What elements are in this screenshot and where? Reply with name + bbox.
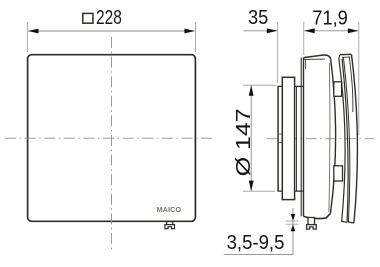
flange ring on pipe bbox=[282, 77, 294, 199]
ext line housing back bbox=[303, 22, 305, 55]
svg-text:71,9: 71,9 bbox=[312, 6, 348, 29]
ext line pipe end bbox=[277, 22, 279, 83]
arrow left 228 bbox=[28, 29, 39, 34]
bottom clip connector bbox=[334, 166, 343, 181]
arrow 71,9 right bbox=[348, 28, 359, 33]
3,5-9,5 leader vertical bbox=[292, 208, 294, 254]
back small latch detail bbox=[304, 59, 306, 69]
3,5-9,5 underline bbox=[224, 253, 294, 255]
cover shell (band2) bbox=[339, 54, 358, 223]
housing front silhouette bbox=[330, 59, 335, 213]
dimension line 228 bbox=[29, 30, 195, 32]
centerline horizontal (side view) bbox=[267, 138, 375, 140]
svg-text:MAICO: MAICO bbox=[157, 205, 182, 214]
dia 147 ext lines bbox=[243, 85, 276, 191]
arrow at pipe-end ext bbox=[267, 28, 278, 33]
gap arrow up bbox=[291, 225, 296, 232]
dim line 35 (arrow outside left) bbox=[244, 30, 277, 32]
svg-text:35: 35 bbox=[248, 6, 268, 29]
housing body outline bbox=[304, 55, 331, 59]
centerline horizontal (left view) bbox=[5, 137, 213, 139]
cover square (front view) bbox=[28, 55, 196, 222]
extension lines 228 bbox=[27, 22, 195, 52]
centerline vertical (left view) bbox=[111, 37, 113, 252]
housing bottom edge bbox=[304, 214, 331, 219]
svg-text:228: 228 bbox=[96, 6, 122, 29]
dim line 71,9 bbox=[305, 30, 359, 32]
gap arrow down bbox=[291, 214, 296, 221]
top clip connector bbox=[334, 82, 342, 97]
dia arrow up bbox=[249, 85, 254, 96]
latch bottom (front view) bbox=[165, 222, 175, 229]
wall mount clip under housing bbox=[307, 218, 317, 230]
svg-text:3,5-9,5: 3,5-9,5 bbox=[227, 231, 285, 254]
3,5-9,5 gap lines bbox=[286, 221, 299, 224]
square symbol of dim label bbox=[83, 13, 93, 23]
pipe end hub ticks bbox=[279, 133, 282, 135]
dia arrow down bbox=[249, 181, 254, 192]
inner ring band (band1) bbox=[339, 59, 348, 223]
ext line cover outer bbox=[358, 22, 360, 135]
housing front contour line bbox=[329, 63, 330, 212]
dia 147 dim line bbox=[250, 86, 252, 191]
housing back edge bbox=[301, 58, 303, 217]
svg-text:Ø 147: Ø 147 bbox=[232, 108, 255, 176]
arrow right 228 bbox=[184, 29, 195, 34]
housing inner top edge bbox=[304, 58, 326, 60]
arrow 71,9 left bbox=[304, 28, 315, 33]
duct pipe bbox=[278, 86, 303, 192]
